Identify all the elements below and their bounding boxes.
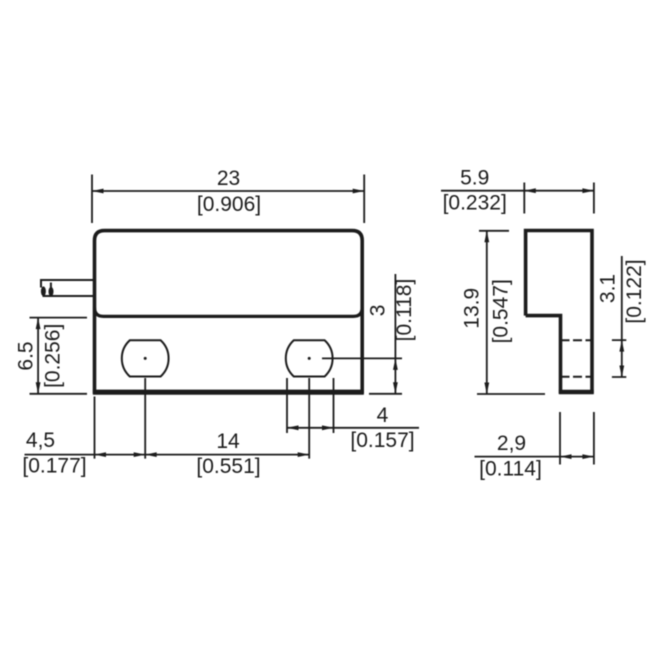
- hole 2 center dot: [308, 357, 311, 360]
- dim 2,9 arrows: [560, 454, 594, 459]
- dim 23 line: [92, 190, 364, 192]
- dim 4 arrows: [287, 425, 334, 430]
- dim 4,5 / 14 extension lines: [95, 378, 310, 459]
- svg-text:2,9: 2,9: [497, 432, 526, 455]
- dim 5.9 arrows: [524, 188, 594, 193]
- dim 2,9 extension lines: [560, 412, 594, 465]
- dim 14 arrows: [145, 452, 309, 457]
- hole 2: [286, 340, 333, 376]
- svg-text:23: 23: [217, 167, 240, 190]
- side view hidden hole dashed lines: [561, 340, 592, 377]
- svg-text:4,5: 4,5: [26, 429, 55, 452]
- svg-text:[0.551]: [0.551]: [196, 455, 260, 478]
- dim 3 extension lines: [322, 358, 402, 393]
- svg-text:[0.256]: [0.256]: [42, 324, 65, 388]
- side view bottom edge (thick): [559, 390, 594, 394]
- dim 3 line: [394, 274, 396, 394]
- svg-text:[0.122]: [0.122]: [623, 259, 646, 323]
- dim 23 arrows: [92, 189, 364, 194]
- dim 3.1 arrows: [619, 340, 624, 377]
- dim 5.9 extension lines: [524, 183, 594, 214]
- dim 23 extension lines: [92, 175, 364, 224]
- dim 4 line: [287, 427, 419, 429]
- dim 4,5 arrows: [95, 452, 146, 457]
- front view body outline: [95, 231, 363, 394]
- svg-text:[0.177]: [0.177]: [22, 455, 86, 478]
- front view bottom edge (thick): [93, 390, 364, 395]
- svg-text:13.9: 13.9: [460, 288, 483, 329]
- hole 1 center dot: [144, 357, 147, 360]
- dim 13.9 extension lines: [477, 231, 545, 394]
- svg-text:5.9: 5.9: [460, 167, 489, 190]
- svg-text:[0.114]: [0.114]: [479, 458, 542, 481]
- svg-text:[0.547]: [0.547]: [490, 279, 513, 343]
- dim 6.5 arrows: [36, 318, 41, 394]
- svg-text:3: 3: [366, 305, 389, 317]
- dim 3.1 extension lines: [612, 340, 626, 377]
- dim 5.9 line: [441, 190, 594, 192]
- side view outline: [526, 231, 592, 394]
- dim 6.5 extension lines: [30, 318, 88, 394]
- svg-text:[0.906]: [0.906]: [197, 193, 261, 216]
- dim 3.1 line: [621, 256, 623, 377]
- lead wire left: [41, 280, 95, 296]
- hole 1: [122, 340, 169, 376]
- dim 4,5 / 14 line: [25, 454, 310, 456]
- dim 6.5 line: [37, 318, 39, 394]
- svg-text:14: 14: [216, 430, 240, 453]
- dim 13.9 line: [486, 231, 488, 394]
- dim 3 arrows: [393, 358, 398, 393]
- svg-text:[0.157]: [0.157]: [350, 429, 414, 452]
- lead wire end blobs: [41, 283, 54, 297]
- svg-text:3.1: 3.1: [596, 274, 619, 303]
- front view inner line (bottom of rounded cap): [95, 307, 363, 316]
- dim 4 extension lines: [287, 378, 334, 433]
- svg-text:6.5: 6.5: [14, 341, 37, 370]
- svg-text:4: 4: [377, 404, 389, 427]
- dim 2,9 line: [475, 456, 594, 458]
- dim 13.9 arrows: [484, 231, 489, 394]
- svg-text:[0.118]: [0.118]: [393, 279, 416, 342]
- svg-text:[0.232]: [0.232]: [443, 192, 507, 215]
